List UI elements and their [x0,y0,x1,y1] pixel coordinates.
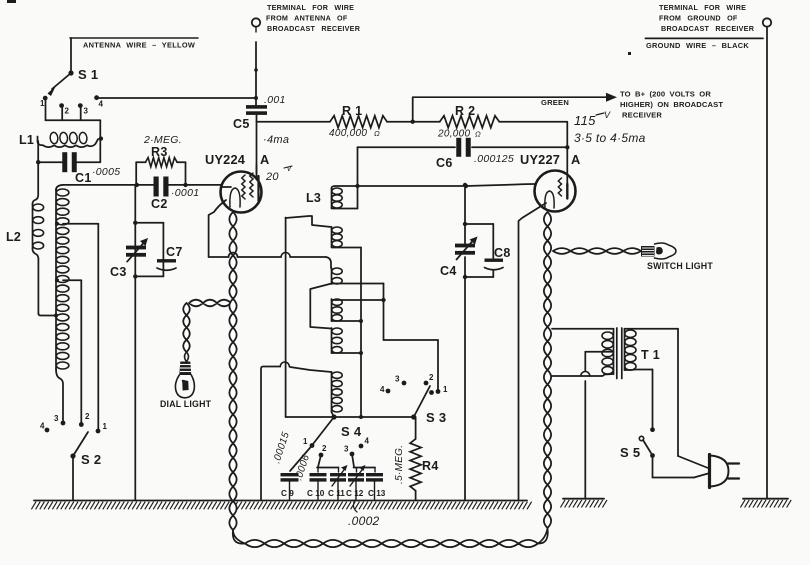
svg-text:v: v [287,164,292,173]
svg-text:GROUND WIRE – BLACK: GROUND WIRE – BLACK [646,41,749,50]
svg-text:C5: C5 [233,117,250,131]
svg-text:.5·MEG.: .5·MEG. [394,445,405,484]
svg-text:FROM ANTENNA OF: FROM ANTENNA OF [266,14,348,23]
svg-text:20: 20 [265,171,279,183]
svg-text:R 2: R 2 [455,104,475,118]
svg-text:C 9: C 9 [281,489,294,498]
svg-text:3: 3 [54,414,59,423]
svg-text:C8: C8 [494,246,511,260]
svg-text:UY224: UY224 [205,152,246,167]
svg-text:2: 2 [85,412,90,421]
svg-text:C3: C3 [110,265,127,279]
svg-text:SWITCH LIGHT: SWITCH LIGHT [647,261,713,271]
svg-text:2: 2 [322,444,327,453]
svg-text:4: 4 [99,100,104,109]
svg-text:L1: L1 [19,133,34,147]
svg-text:C 12: C 12 [346,489,364,498]
svg-text:3: 3 [84,107,89,116]
svg-text:·0005: ·0005 [92,166,120,178]
svg-text:BROADCAST RECEIVER: BROADCAST RECEIVER [267,24,361,33]
svg-text:20,000: 20,000 [437,129,471,140]
svg-text:TERMINAL FOR WIRE: TERMINAL FOR WIRE [267,3,354,12]
svg-text:C 10: C 10 [307,489,325,498]
svg-text:C1: C1 [75,171,92,185]
svg-text:.000125: .000125 [474,153,514,165]
svg-text:GREEN: GREEN [541,98,569,107]
svg-text:2: 2 [65,107,70,116]
svg-text:UY227: UY227 [520,152,560,167]
svg-text:TO B+ (200 VOLTS OR: TO B+ (200 VOLTS OR [620,90,711,99]
svg-text:TERMINAL FOR WIRE: TERMINAL FOR WIRE [659,3,746,12]
svg-text:3: 3 [344,445,349,454]
svg-text:4: 4 [40,422,45,431]
svg-text:S 2: S 2 [81,452,101,467]
svg-text:S 3: S 3 [426,410,446,425]
svg-text:S 5: S 5 [620,445,640,460]
svg-text:115: 115 [574,113,596,128]
svg-text:4: 4 [380,385,385,394]
svg-text:V: V [604,110,611,120]
svg-text:L2: L2 [6,230,21,244]
svg-text:C 11: C 11 [328,489,345,498]
svg-text:C2: C2 [151,197,168,211]
svg-text:ANTENNA WIRE – YELLOW: ANTENNA WIRE – YELLOW [83,41,195,50]
svg-text:1: 1 [443,385,448,394]
svg-text:C4: C4 [440,264,457,278]
svg-text:3: 3 [395,375,400,384]
svg-text:R3: R3 [151,145,168,159]
svg-text:C7: C7 [166,245,183,259]
svg-text:3·5 to 4·5ma: 3·5 to 4·5ma [574,131,646,145]
svg-text:Ω: Ω [374,129,380,138]
svg-text:R 1: R 1 [342,104,362,118]
svg-text:Ω: Ω [475,130,481,139]
svg-text:400,000: 400,000 [329,128,367,139]
svg-text:R4: R4 [422,459,439,473]
svg-text:RECEIVER: RECEIVER [622,111,662,120]
svg-text:1: 1 [303,437,308,446]
svg-text:C 13: C 13 [368,489,386,498]
svg-text:2: 2 [429,373,434,382]
svg-text:HIGHER) ON BROADCAST: HIGHER) ON BROADCAST [620,100,723,109]
svg-text:C6: C6 [436,156,453,170]
svg-text:1: 1 [40,99,45,108]
svg-text:4: 4 [365,437,370,446]
svg-text:A: A [571,152,581,167]
svg-text:BROADCAST RECEIVER: BROADCAST RECEIVER [661,24,755,33]
svg-text:·0001: ·0001 [171,187,199,199]
svg-text:DIAL LIGHT: DIAL LIGHT [160,399,212,409]
svg-text:1: 1 [103,422,108,431]
svg-text:.0002: .0002 [348,514,380,528]
svg-text:S 4: S 4 [341,424,362,439]
svg-text:L3: L3 [306,191,321,205]
svg-text:FROM GROUND OF: FROM GROUND OF [659,14,738,23]
svg-text:·4ma: ·4ma [263,134,289,146]
svg-text:.001: .001 [264,94,286,106]
svg-text:S 1: S 1 [78,67,98,82]
svg-text:A: A [260,152,270,167]
svg-text:T 1: T 1 [641,348,660,362]
